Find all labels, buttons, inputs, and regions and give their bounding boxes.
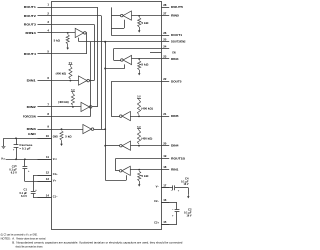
svg-text:25: 25 bbox=[163, 37, 167, 41]
svg-text:5 kΩ: 5 kΩ bbox=[141, 62, 148, 66]
svg-text:DOUT5: DOUT5 bbox=[171, 79, 182, 83]
svg-text:C1−: C1− bbox=[53, 196, 58, 199]
svg-text:RIN1: RIN1 bbox=[171, 167, 179, 171]
svg-text:DIN1: DIN1 bbox=[27, 79, 37, 83]
svg-text:DOUT1: DOUT1 bbox=[171, 33, 182, 37]
svg-text:RIN5: RIN5 bbox=[171, 14, 179, 18]
svg-text:13: 13 bbox=[46, 177, 50, 181]
svg-text:5 kΩ: 5 kΩ bbox=[141, 174, 148, 178]
svg-text:C2−: C2− bbox=[154, 200, 159, 203]
svg-text:0.1 μF: 0.1 μF bbox=[9, 170, 17, 172]
svg-text:23: 23 bbox=[163, 55, 167, 59]
svg-text:(400 kΩ): (400 kΩ) bbox=[141, 107, 153, 111]
svg-text:ROUT4: ROUT4 bbox=[24, 52, 36, 56]
svg-text:= 0.1 μF: = 0.1 μF bbox=[19, 149, 31, 151]
svg-text:ROUT2: ROUT2 bbox=[24, 14, 36, 18]
svg-text:5 kΩ: 5 kΩ bbox=[65, 134, 71, 138]
svg-text:28: 28 bbox=[163, 3, 167, 7]
svg-text:5 kΩ: 5 kΩ bbox=[141, 21, 148, 25]
svg-text:24: 24 bbox=[163, 44, 167, 48]
svg-text:DIN5: DIN5 bbox=[171, 114, 179, 118]
svg-text:FORCEON: FORCEON bbox=[23, 114, 36, 118]
svg-text:C2+: C2+ bbox=[154, 222, 159, 225]
svg-text:ROUT5: ROUT5 bbox=[171, 5, 183, 9]
svg-text:B.: B. bbox=[12, 240, 15, 244]
svg-text:15: 15 bbox=[163, 220, 167, 224]
svg-text:5 V: 5 V bbox=[69, 62, 73, 65]
svg-text:22: 22 bbox=[163, 77, 167, 81]
svg-text:RIN3: RIN3 bbox=[27, 127, 37, 131]
svg-text:C1+: C1+ bbox=[53, 173, 58, 176]
svg-text:11: 11 bbox=[46, 155, 49, 159]
svg-text:18: 18 bbox=[163, 165, 167, 169]
svg-text:10: 10 bbox=[46, 134, 50, 138]
svg-text:5 V: 5 V bbox=[71, 89, 75, 92]
svg-text:12: 12 bbox=[46, 171, 50, 175]
svg-text:ROUT3: ROUT3 bbox=[24, 23, 36, 27]
svg-text:RIN4: RIN4 bbox=[171, 57, 179, 61]
svg-text:5 kΩ: 5 kΩ bbox=[54, 38, 60, 42]
svg-text:A.: A. bbox=[12, 236, 15, 240]
svg-text:DOUT2/EN2: DOUT2/EN2 bbox=[171, 40, 186, 44]
svg-text:(400 kΩ): (400 kΩ) bbox=[56, 71, 67, 75]
svg-text:14: 14 bbox=[46, 193, 50, 197]
svg-text:5 V: 5 V bbox=[137, 126, 141, 129]
svg-text:27: 27 bbox=[163, 12, 167, 16]
svg-text:5 V: 5 V bbox=[137, 95, 141, 98]
svg-text:VCC: VCC bbox=[1, 157, 6, 160]
svg-text:RIN4: RIN4 bbox=[25, 31, 36, 35]
svg-text:21: 21 bbox=[163, 112, 167, 116]
svg-text:ROUT1: ROUT1 bbox=[24, 5, 36, 9]
svg-text:6.3 V: 6.3 V bbox=[21, 196, 28, 198]
svg-text:VCC: VCC bbox=[53, 158, 58, 161]
svg-text:GND: GND bbox=[28, 132, 36, 136]
svg-text:0.1 μF: 0.1 μF bbox=[184, 213, 192, 215]
svg-text:Resistor values shown are nomi: Resistor values shown are nominal. bbox=[16, 236, 46, 240]
svg-text:DIN4: DIN4 bbox=[171, 144, 179, 148]
svg-text:6.3 V: 6.3 V bbox=[11, 173, 18, 175]
svg-text:EN: EN bbox=[172, 51, 175, 55]
svg-text:DIN2: DIN2 bbox=[27, 105, 37, 109]
svg-text:19: 19 bbox=[163, 154, 167, 158]
svg-text:26: 26 bbox=[163, 31, 167, 35]
svg-text:(400 kΩ): (400 kΩ) bbox=[58, 100, 69, 104]
svg-text:should be connected as shown.: should be connected as shown. bbox=[16, 244, 44, 248]
svg-text:16: 16 bbox=[163, 198, 167, 202]
svg-text:GND: GND bbox=[53, 136, 58, 139]
svg-text:20: 20 bbox=[163, 141, 167, 145]
svg-text:16 V: 16 V bbox=[184, 184, 189, 186]
svg-text:17: 17 bbox=[163, 183, 167, 187]
svg-text:(1) C3 can be connected to VCC: (1) C3 can be connected to VCC or GND. bbox=[1, 233, 38, 237]
svg-text:NOTES:: NOTES: bbox=[1, 236, 11, 240]
svg-text:0.1 μF: 0.1 μF bbox=[20, 193, 28, 195]
svg-text:16 V: 16 V bbox=[187, 216, 192, 218]
svg-text:ROUT1B: ROUT1B bbox=[171, 156, 185, 160]
svg-text:CBYPASS: CBYPASS bbox=[19, 144, 33, 147]
svg-text:Nonpolarized ceramic capacitor: Nonpolarized ceramic capacitors are acce… bbox=[16, 240, 183, 244]
svg-text:(400 kΩ): (400 kΩ) bbox=[141, 137, 152, 141]
